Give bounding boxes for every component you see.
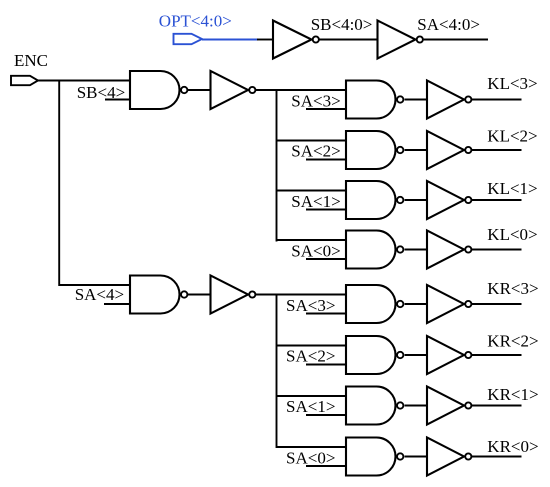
nand U11	[346, 231, 403, 269]
wire SA<4> to NAND U3 pin 2	[104, 303, 130, 305]
svg-text:SA<0>: SA<0>	[286, 448, 335, 467]
nand U9	[346, 181, 403, 219]
svg-text:KR<1>: KR<1>	[487, 385, 538, 404]
wire U9 output to inverter U10	[405, 199, 427, 201]
svg-text:SA<2>: SA<2>	[286, 347, 335, 366]
inverter T2	[378, 21, 423, 59]
wire KL<3> output	[472, 99, 522, 101]
svg-text:KL<2>: KL<2>	[487, 127, 537, 146]
wire U11 output to inverter U12	[405, 249, 427, 251]
svg-text:KR<0>: KR<0>	[487, 437, 538, 456]
inverter U10	[427, 181, 471, 219]
svg-text:SA<1>: SA<1>	[286, 397, 335, 416]
wire SA<3> to NAND U13 pin 2	[306, 313, 346, 315]
wire SA<3> to NAND U5 pin 2	[306, 108, 346, 110]
nand U13	[346, 285, 403, 323]
wire U3 output to inverter U4	[188, 294, 211, 296]
wire KL bus to NAND U9 pin 1	[277, 190, 347, 192]
nand U3	[130, 276, 187, 314]
wire KL bus to NAND U7 pin 1	[277, 140, 347, 142]
wire U2 output to NAND U5 pin 1	[256, 89, 346, 91]
wire U13 output to inverter U14	[405, 303, 427, 305]
wire OPT to inverter T1 input	[257, 39, 273, 41]
wire ENC to NAND U1 pin 1	[38, 80, 130, 82]
nand U15	[346, 336, 403, 374]
wire KR<2> output	[472, 354, 522, 356]
wire KR<0> output	[472, 456, 522, 458]
wire U5 output to inverter U6	[405, 99, 427, 101]
inverter U8	[427, 131, 471, 169]
wire SA<0> to NAND U11 pin 2	[306, 258, 346, 260]
svg-text:SB<4:0>: SB<4:0>	[311, 15, 373, 34]
wire KL<0> output	[472, 249, 522, 251]
inverter T1	[273, 21, 319, 59]
wire U19 output to inverter U20	[405, 456, 427, 458]
wire KR<3> output	[472, 303, 522, 305]
wire KR bus vertical	[276, 295, 278, 449]
inverter U2	[211, 71, 256, 109]
svg-text:KR<3>: KR<3>	[487, 279, 538, 298]
svg-text:KR<2>: KR<2>	[487, 331, 538, 350]
wire U1 output to inverter U2	[188, 89, 211, 91]
svg-text:ENC: ENC	[14, 51, 48, 70]
wire U7 output to inverter U8	[405, 149, 427, 151]
wire ENC to NAND U3 pin 1	[59, 81, 130, 286]
wire KL<2> output	[472, 149, 522, 151]
wire SA<2> to NAND U7 pin 2	[306, 159, 346, 161]
nand U5	[346, 81, 403, 119]
svg-text:KL<0>: KL<0>	[487, 225, 537, 244]
nand U19	[346, 438, 403, 476]
wire KR bus to NAND U19 pin 1	[277, 446, 347, 448]
svg-text:SA<3>: SA<3>	[291, 92, 340, 111]
svg-text:OPT<4:0>: OPT<4:0>	[159, 11, 232, 30]
wire node SB<4:0>	[320, 39, 378, 41]
svg-text:SA<3>: SA<3>	[286, 296, 335, 315]
wire KR<1> output	[472, 405, 522, 407]
wire KR bus to NAND U15 pin 1	[277, 345, 347, 347]
svg-text:KL<1>: KL<1>	[487, 179, 537, 198]
inverter U6	[427, 81, 471, 119]
nand U1	[130, 71, 187, 109]
wire U17 output to inverter U18	[405, 405, 427, 407]
wire KL bus vertical	[276, 90, 278, 242]
wire SA<2> to NAND U15 pin 2	[306, 364, 346, 366]
wire KR bus to NAND U17 pin 1	[277, 395, 347, 397]
svg-text:SA<4:0>: SA<4:0>	[417, 15, 480, 34]
inverter U4	[211, 276, 256, 314]
wire SA<1> to NAND U17 pin 2	[306, 414, 346, 416]
inverter U18	[427, 387, 471, 425]
nand U17	[346, 387, 403, 425]
input connector OPT	[174, 34, 203, 44]
wire node SA<4:0>	[424, 39, 488, 41]
wire SA<0> to NAND U19 pin 2	[306, 465, 346, 467]
svg-text:SA<0>: SA<0>	[291, 241, 340, 260]
svg-text:KL<3>: KL<3>	[487, 74, 537, 93]
wire U15 output to inverter U16	[405, 354, 427, 356]
nand U7	[346, 131, 403, 169]
inverter U16	[427, 336, 471, 374]
wire SA<1> to NAND U9 pin 2	[306, 209, 346, 211]
svg-text:SA<1>: SA<1>	[291, 192, 340, 211]
wire SB<4> to NAND U1 pin 2	[105, 99, 130, 101]
inverter U14	[427, 285, 471, 323]
svg-text:SA<4>: SA<4>	[75, 285, 124, 304]
wire KL<1> output	[472, 199, 522, 201]
input connector ENC	[11, 76, 38, 85]
wire U4 output to NAND U13 pin 1	[256, 294, 346, 296]
inverter U12	[427, 231, 471, 269]
wire OPT (blue segment)	[202, 39, 258, 41]
wire KL bus to NAND U11 pin 1	[277, 239, 347, 241]
svg-text:SA<2>: SA<2>	[291, 142, 340, 161]
inverter U20	[427, 438, 471, 476]
